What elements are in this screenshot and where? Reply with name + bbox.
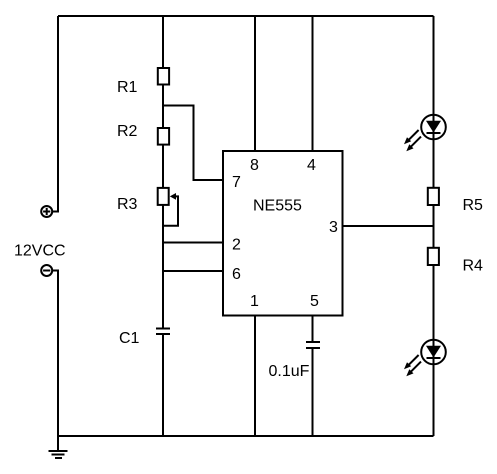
svg-text:R2: R2	[117, 123, 138, 140]
svg-text:2: 2	[232, 237, 241, 254]
svg-text:C1: C1	[119, 330, 140, 347]
wire R3 down through junctions to C1	[162, 205, 164, 329]
capacitor 0.1uF	[306, 342, 320, 348]
resistor R5	[428, 188, 439, 205]
terminal - (negative supply)	[41, 265, 52, 276]
svg-text:5: 5	[310, 293, 319, 310]
wire R2 to R3	[162, 145, 164, 188]
terminal + (positive supply)	[41, 206, 52, 217]
wire R5 to R4	[433, 205, 435, 248]
svg-text:8: 8	[250, 157, 259, 174]
wire LED D1 to R5	[433, 139, 435, 188]
wire left ground from - terminal to bottom rail	[52, 271, 58, 437]
svg-text:3: 3	[329, 219, 338, 236]
resistor R1	[158, 68, 169, 85]
svg-text:R3: R3	[117, 196, 138, 213]
svg-text:R1: R1	[117, 79, 138, 96]
potentiometer R3	[158, 188, 178, 226]
svg-text:12VCC: 12VCC	[14, 243, 66, 260]
wire pin 1 to bottom rail	[254, 316, 256, 437]
wire branch node to pin 7	[163, 106, 223, 181]
svg-text:6: 6	[232, 266, 241, 283]
wire R4 to LED D2	[433, 265, 435, 340]
svg-text:R4: R4	[463, 258, 484, 275]
wire from top rail to R1	[162, 16, 164, 68]
wire top rail	[58, 15, 434, 17]
svg-text:7: 7	[232, 174, 241, 191]
svg-text:NE555: NE555	[253, 198, 302, 215]
wire pin 3 to right rail	[343, 225, 434, 227]
wire pin 6	[163, 270, 223, 272]
LED D2	[404, 340, 446, 377]
wire pin 8 to top rail	[254, 16, 256, 151]
svg-text:0.1uF: 0.1uF	[269, 363, 310, 380]
wire LED D2 to bottom rail	[433, 364, 435, 436]
capacitor C1	[156, 329, 170, 335]
wire bottom rail	[58, 435, 434, 437]
resistor R2	[158, 128, 169, 145]
wire left supply from top rail to + terminal	[52, 16, 58, 212]
LED D1	[404, 115, 446, 152]
wire C1 to bottom rail	[162, 334, 164, 436]
wire R1 to R2	[162, 85, 164, 129]
resistor R4	[428, 248, 439, 265]
wire capacitor to bottom rail	[312, 348, 314, 436]
svg-text:4: 4	[307, 157, 316, 174]
ground	[49, 436, 68, 458]
svg-text:1: 1	[250, 293, 259, 310]
wire pin 5 to capacitor	[312, 316, 314, 343]
IC U1 NE555	[223, 151, 343, 316]
wire pin 2	[163, 242, 223, 244]
wire pin 4 to top rail	[312, 16, 314, 151]
wire right rail top to LED D1	[433, 16, 435, 115]
svg-text:R5: R5	[463, 197, 484, 214]
